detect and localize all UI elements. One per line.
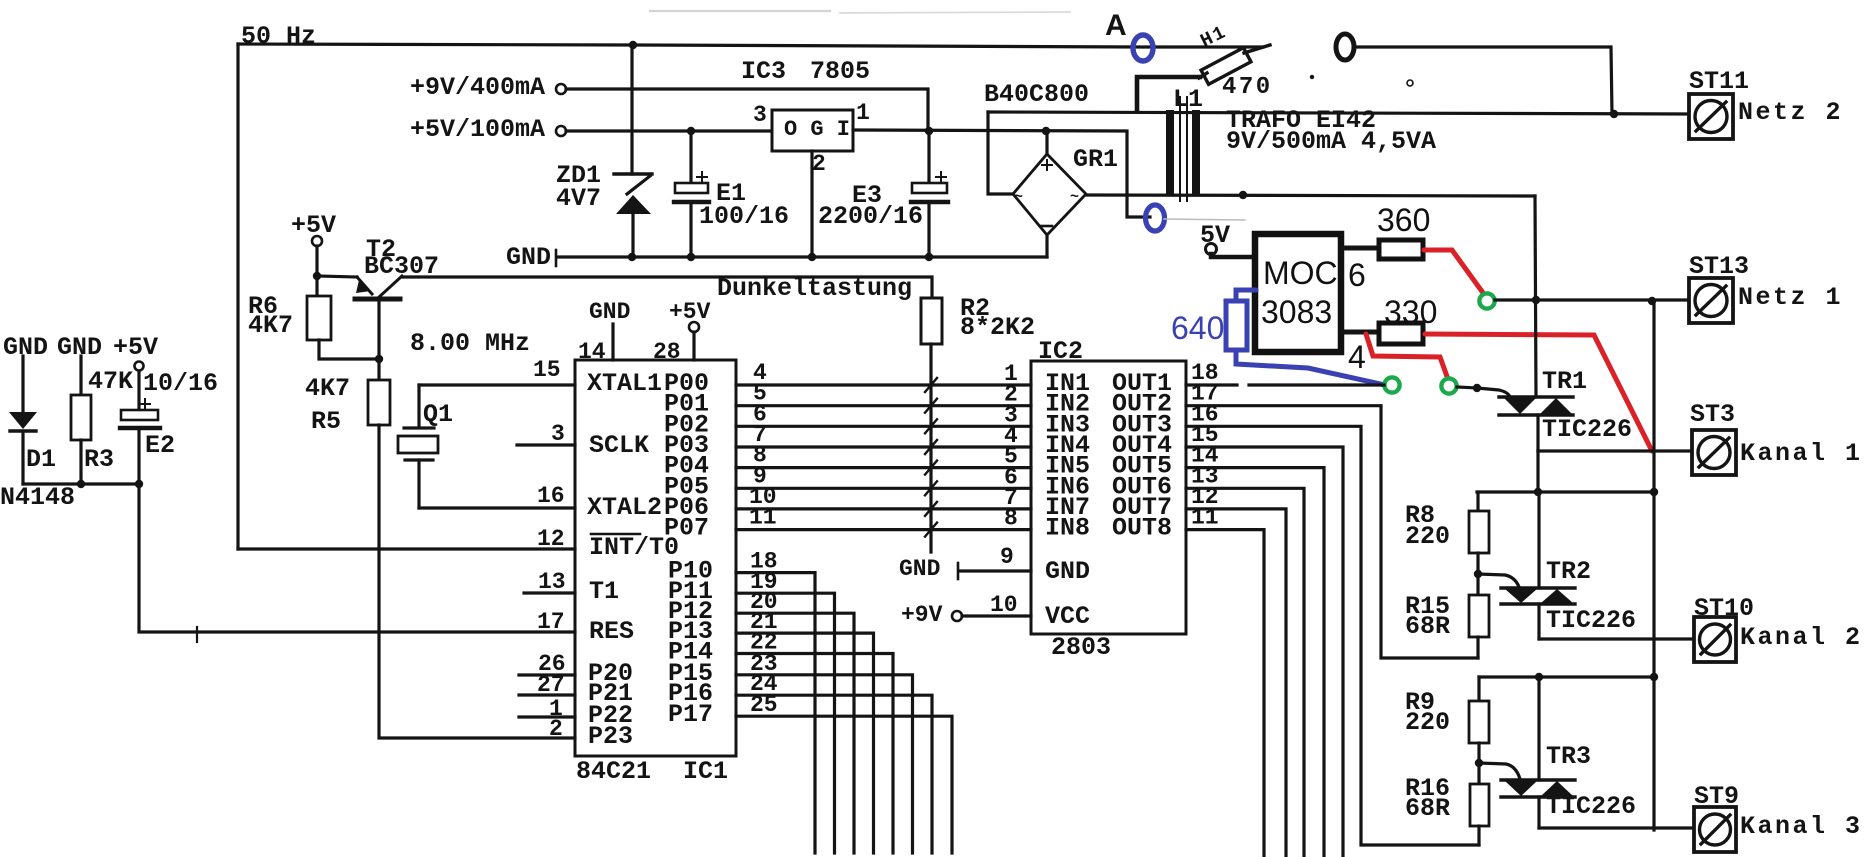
wire OUT2 drop bbox=[1186, 406, 1478, 658]
wire Kanal2 rail bbox=[1539, 637, 1696, 640]
wire GND rail bbox=[558, 255, 1047, 258]
svg-text:+5V: +5V bbox=[291, 211, 336, 240]
wire bridge AC right to transformer bottom bbox=[1086, 195, 1535, 196]
junction dot TR3 MT2 rail bbox=[1535, 673, 1543, 681]
wire P15 staircase bbox=[736, 675, 913, 853]
red wire 330 to Kanal1 node bbox=[1425, 334, 1652, 451]
wire Kanal3 rail bbox=[1539, 826, 1696, 829]
svg-text:Kanal 3: Kanal 3 bbox=[1740, 812, 1863, 841]
svg-text:L1: L1 bbox=[1173, 85, 1203, 114]
junction dot Netz2 drop bbox=[1610, 110, 1618, 118]
svg-text:3083: 3083 bbox=[1261, 294, 1332, 330]
R2 tick on line 8 bbox=[925, 523, 937, 537]
wire bridge AC left loop bbox=[988, 112, 1013, 194]
resistor R15 68R bbox=[1476, 574, 1479, 595]
svg-text:B40C800: B40C800 bbox=[984, 80, 1089, 109]
speck dot bbox=[1310, 75, 1314, 79]
wire P16 staircase bbox=[736, 695, 932, 853]
svg-text:P17: P17 bbox=[668, 700, 713, 729]
svg-text:84C21: 84C21 bbox=[576, 757, 651, 786]
wire TR1 MT1 down to snubber line bbox=[1536, 451, 1539, 492]
svg-text:2200/16: 2200/16 bbox=[818, 202, 923, 231]
svg-text:TR1: TR1 bbox=[1542, 367, 1587, 396]
wire OUT5 drop bbox=[1186, 468, 1324, 857]
wire Netz1 rail bbox=[1495, 298, 1689, 301]
resistor network R2 8*2K2 bbox=[921, 298, 942, 344]
wire bus P06 to IN7 bbox=[736, 507, 1031, 510]
svg-text:Dunkeltastung: Dunkeltastung bbox=[717, 274, 912, 303]
transformer L1 right winding bbox=[1192, 110, 1200, 196]
wire TR3 MT2 bbox=[1537, 677, 1540, 780]
svg-text:13: 13 bbox=[538, 569, 566, 595]
wire IC1 pin14 bbox=[611, 324, 614, 360]
svg-text:E2: E2 bbox=[145, 431, 175, 460]
black ellipse node marker (Netz2 wire) bbox=[1336, 34, 1354, 60]
junction dot right bus R8 rail bbox=[1650, 488, 1658, 496]
svg-text:VCC: VCC bbox=[1045, 602, 1090, 631]
left border wire (50Hz to INT/T0) bbox=[236, 44, 239, 549]
R2 tick on line 2 bbox=[925, 399, 937, 413]
wire P22 stub bbox=[519, 715, 575, 718]
resistor R6 4K7 bbox=[307, 296, 331, 340]
svg-text:28: 28 bbox=[653, 339, 681, 365]
terminal circle +9V bbox=[952, 611, 962, 621]
svg-text:OUT8: OUT8 bbox=[1112, 514, 1172, 543]
blue wire 640 bottom to OUT1 node bbox=[1236, 350, 1385, 385]
wire XTAL2 bbox=[419, 506, 575, 509]
svg-text:15: 15 bbox=[533, 357, 561, 383]
svg-text:25: 25 bbox=[750, 692, 778, 718]
connector ST11 bbox=[1689, 94, 1733, 139]
svg-text:+9V: +9V bbox=[901, 602, 943, 628]
svg-text:~: ~ bbox=[1070, 189, 1079, 206]
svg-text:220: 220 bbox=[1405, 708, 1450, 737]
resistor R8 220 bbox=[1476, 492, 1479, 511]
junction dot E1/+5V rail bbox=[687, 127, 695, 135]
svg-text:2803: 2803 bbox=[1051, 633, 1111, 662]
svg-text:O G I: O G I bbox=[784, 117, 850, 142]
wire TR1 MT1 to Kanal1 bbox=[1536, 415, 1539, 451]
wire P21 stub bbox=[519, 693, 575, 696]
bridge rectifier GR1 diamond bbox=[1013, 154, 1086, 235]
junction dot bridge + lead bbox=[1042, 127, 1050, 135]
svg-text:P23: P23 bbox=[588, 722, 633, 751]
wire IC3 pin1 to bridge + node bbox=[853, 130, 1150, 217]
svg-text:A: A bbox=[1105, 9, 1127, 42]
wire R9 top rail bbox=[1479, 675, 1654, 678]
terminal circle +5V T2 bbox=[312, 236, 322, 246]
svg-text:68R: 68R bbox=[1405, 612, 1450, 641]
wire gate TR2 bbox=[1478, 574, 1519, 587]
transformer L1 core lines bbox=[1180, 97, 1187, 201]
wire bus P02 to IN3 bbox=[736, 425, 1031, 428]
blue wire 640 top to MOC bbox=[1236, 290, 1256, 301]
svg-text:8*2K2: 8*2K2 bbox=[960, 313, 1035, 342]
svg-text:68R: 68R bbox=[1405, 794, 1450, 823]
junction dot ZD1/GND bbox=[628, 253, 636, 261]
resistor 640 (blue annotation) bbox=[1226, 301, 1247, 350]
svg-text:2: 2 bbox=[549, 716, 563, 742]
svg-text:16: 16 bbox=[537, 483, 565, 509]
bridge + mark bbox=[1042, 160, 1052, 170]
bridge - mark bbox=[1040, 225, 1052, 228]
connector ST10 bbox=[1694, 617, 1736, 662]
node marker blue ellipse (transformer secondary) bbox=[1146, 205, 1165, 231]
wire bus P00 to IN1 bbox=[736, 383, 1031, 386]
junction dot R9/R16/gate bbox=[1475, 759, 1483, 767]
resistor R16 68R bbox=[1477, 763, 1480, 784]
svg-text:D1: D1 bbox=[26, 445, 56, 474]
ic IC1 84C21 box bbox=[575, 360, 736, 756]
wire P12 staircase bbox=[736, 613, 854, 853]
resistor R3 47K bbox=[79, 356, 82, 395]
connector ST13 bbox=[1689, 278, 1733, 323]
svg-text:ST9: ST9 bbox=[1694, 782, 1739, 811]
wire OUT8 drop bbox=[1186, 530, 1264, 857]
svg-text:17: 17 bbox=[537, 609, 565, 635]
junction dot R6/R5/base bbox=[375, 355, 383, 363]
svg-text:GND: GND bbox=[899, 556, 940, 582]
svg-text:Netz 1: Netz 1 bbox=[1738, 283, 1843, 312]
node A blue ellipse on 50Hz rail bbox=[1133, 35, 1153, 61]
wire +9V to IC2 pin10 bbox=[962, 614, 1031, 617]
wire P11 staircase bbox=[736, 593, 835, 853]
R2 tick on line 5 bbox=[925, 461, 937, 475]
wire TR2 MT2 bbox=[1537, 492, 1540, 588]
wire bus P01 to IN2 bbox=[736, 404, 1031, 407]
wire OUT7 drop bbox=[1186, 509, 1286, 857]
junction dot E3/GND bbox=[925, 253, 933, 261]
wire H1 bottom lead to transformer node bbox=[1137, 77, 1200, 111]
diode D1 1N4148 bbox=[21, 356, 24, 412]
svg-text:GND: GND bbox=[3, 333, 48, 362]
junction dot R3 bbox=[77, 480, 85, 488]
faint wire stub right of blue ellipse bbox=[1164, 219, 1245, 220]
tick on RES wire bbox=[196, 627, 198, 642]
wire R8 top rail bbox=[1477, 490, 1654, 493]
wire IC1 pin28 bbox=[692, 332, 695, 360]
svg-text:100/16: 100/16 bbox=[699, 202, 789, 231]
resistor R5 4K7 bbox=[377, 359, 380, 380]
svg-text:GND: GND bbox=[589, 299, 630, 325]
terminal circle +9V/400mA bbox=[556, 84, 566, 94]
svg-text:1: 1 bbox=[856, 100, 870, 126]
wire +9V rail to regulator input node bbox=[566, 89, 928, 131]
crystal Q1 bbox=[417, 385, 420, 427]
R2 tick on line 6 bbox=[925, 481, 937, 495]
junction dot R8/R15/gate bbox=[1474, 570, 1482, 578]
R2 tick on line 4 bbox=[925, 440, 937, 454]
resistor R9 220 bbox=[1477, 677, 1480, 701]
wire bridge - to GND rail bbox=[1045, 235, 1048, 257]
svg-text:RES: RES bbox=[589, 617, 634, 646]
svg-text:TR2: TR2 bbox=[1546, 557, 1591, 586]
junction dot E3 / +9V node bbox=[925, 127, 933, 135]
wire T1 stub bbox=[524, 591, 575, 594]
wire bus P07 to IN8 bbox=[736, 528, 1031, 531]
op IC3 7805 regulator box OGI bbox=[772, 110, 853, 151]
wire P14 staircase bbox=[736, 654, 893, 854]
junction dot top rail / ZD1 branch bbox=[629, 41, 637, 49]
wire R5 to P23 bbox=[379, 425, 575, 738]
svg-text:360: 360 bbox=[1377, 202, 1430, 238]
junction dot E2 bbox=[135, 480, 143, 488]
svg-text:4: 4 bbox=[1348, 339, 1366, 375]
red wire 360 to Netz1 node bbox=[1424, 250, 1486, 297]
wire gate TR1 from green node bbox=[1457, 387, 1477, 388]
speck circle bbox=[1407, 80, 1413, 86]
svg-text:11: 11 bbox=[1191, 505, 1219, 531]
wire OUT1 line (cut) bbox=[1186, 383, 1384, 386]
ic IC2 ULN2803 box bbox=[1031, 361, 1186, 634]
svg-text:TIC226: TIC226 bbox=[1542, 415, 1632, 444]
svg-text:GND: GND bbox=[506, 243, 551, 272]
svg-text:14: 14 bbox=[578, 339, 606, 365]
junction dot IC3 pin2/GND bbox=[808, 253, 816, 261]
wire P13 staircase bbox=[736, 633, 874, 853]
svg-text:8.00 MHz: 8.00 MHz bbox=[410, 329, 530, 358]
connector ST9 bbox=[1694, 807, 1736, 852]
green circle node (OUT1 cut left) bbox=[1384, 377, 1399, 392]
svg-text:9V/500mA 4,5VA: 9V/500mA 4,5VA bbox=[1226, 127, 1436, 156]
svg-text:3: 3 bbox=[551, 421, 565, 447]
red wire MOC pin4 to gate node bbox=[1366, 334, 1449, 382]
junction dot Netz1/transformer bbox=[1532, 296, 1540, 304]
junction dot TR1/TR2 column bbox=[1534, 488, 1542, 496]
svg-text:ST13: ST13 bbox=[1689, 252, 1749, 281]
svg-text:MOC: MOC bbox=[1263, 255, 1338, 291]
transistor T2 BC307 bbox=[317, 276, 357, 277]
wire XTAL1 bbox=[419, 383, 575, 386]
svg-text:TIC226: TIC226 bbox=[1546, 606, 1636, 635]
svg-text:Q1: Q1 bbox=[423, 400, 453, 429]
svg-text:ST3: ST3 bbox=[1690, 400, 1735, 429]
wire T2 collector / Dunkeltastung line bbox=[402, 277, 932, 298]
resistor 330 bbox=[1379, 323, 1423, 344]
svg-text:+5V/100mA: +5V/100mA bbox=[410, 115, 545, 144]
junction dot right bus R9 rail bbox=[1650, 673, 1658, 681]
svg-text:470: 470 bbox=[1222, 74, 1273, 101]
svg-text:4V7: 4V7 bbox=[556, 184, 601, 213]
svg-text:4K7: 4K7 bbox=[248, 311, 293, 340]
triac TR3 TIC226 bbox=[1501, 778, 1575, 781]
wire bus P03 to IN4 bbox=[736, 445, 1031, 448]
R2 tick on line 1 bbox=[925, 378, 937, 392]
wire H1 top lead bbox=[1244, 45, 1270, 53]
svg-text:7805: 7805 bbox=[810, 57, 870, 86]
wire MOC pin4 stub bbox=[1341, 330, 1379, 335]
connector ST3 bbox=[1692, 430, 1736, 475]
svg-text:ST10: ST10 bbox=[1694, 594, 1754, 623]
wire bridge + vertical bbox=[1045, 131, 1048, 154]
svg-text:IN8: IN8 bbox=[1045, 514, 1090, 543]
wire right bus vertical bbox=[1652, 301, 1655, 830]
capacitor E2 10/16 bbox=[135, 362, 144, 371]
green circle node (OUT1 cut right) bbox=[1441, 378, 1456, 393]
svg-text:XTAL2: XTAL2 bbox=[587, 493, 662, 522]
wire sensor node to RES pin bbox=[139, 430, 575, 632]
wire SCLK stub bbox=[517, 443, 575, 446]
wire IC3 pin2 to GND rail bbox=[810, 151, 813, 257]
GND tick bar bbox=[555, 250, 558, 266]
junction dot T2 emitter bbox=[313, 272, 321, 280]
wire TR3 MT1 to Kanal3 bbox=[1537, 797, 1540, 828]
svg-text:27: 27 bbox=[537, 672, 565, 698]
svg-text:ST11: ST11 bbox=[1689, 67, 1749, 96]
terminal circle +5V/100mA bbox=[556, 126, 566, 136]
svg-text:220: 220 bbox=[1405, 522, 1450, 551]
junction dot Netz1/right bus bbox=[1648, 297, 1656, 305]
terminal circle 5V bbox=[1206, 244, 1217, 255]
svg-text:47K: 47K bbox=[88, 367, 133, 396]
wire ZD1 to GND rail bbox=[631, 213, 634, 257]
svg-text:Kanal 2: Kanal 2 bbox=[1740, 623, 1863, 652]
junction dot E1/GND bbox=[687, 253, 695, 261]
wire T2 base down bbox=[377, 301, 380, 359]
wire 5V to MOC pin bbox=[1211, 254, 1256, 257]
wire transformer bottom to TR1 MT2 bbox=[1535, 196, 1536, 397]
wire OUT6 drop bbox=[1186, 488, 1304, 857]
wire sensor junction rail bbox=[23, 482, 139, 485]
junction dot transformer winding bottom bbox=[1239, 191, 1247, 199]
op MOC3083 optotriac U-box bbox=[1255, 234, 1341, 352]
svg-text:P07: P07 bbox=[664, 514, 709, 543]
svg-text:9: 9 bbox=[1000, 544, 1014, 570]
wire OUT3 drop bbox=[1186, 426, 1479, 845]
svg-text:11: 11 bbox=[749, 505, 777, 531]
wire P10 staircase bbox=[736, 573, 815, 853]
faint scan smudge top bbox=[650, 10, 830, 12]
capacitor E1 100/16 bbox=[689, 131, 692, 183]
zener diode ZD1 4V7 bbox=[614, 172, 652, 175]
svg-text:3: 3 bbox=[753, 102, 767, 128]
svg-text:2: 2 bbox=[812, 151, 826, 177]
triac TR1 TIC226 bbox=[1499, 395, 1573, 398]
wire +5V rail to IC3 pin3 bbox=[566, 129, 772, 132]
svg-text:330: 330 bbox=[1384, 294, 1437, 330]
wire P20 stub bbox=[519, 673, 575, 676]
svg-text:640: 640 bbox=[1171, 310, 1224, 346]
triac TR2 TIC226 bbox=[1501, 586, 1575, 589]
svg-text:IC1: IC1 bbox=[683, 757, 728, 786]
wire GND to IC2 pin9 bbox=[960, 569, 1031, 572]
wire bridge top / Netz2 rail bbox=[988, 112, 1689, 114]
svg-text:+5V: +5V bbox=[113, 333, 158, 362]
wire +5V to R6/T2 bbox=[315, 246, 318, 296]
svg-text:R3: R3 bbox=[84, 445, 114, 474]
svg-text:IC3: IC3 bbox=[741, 57, 786, 86]
svg-text:N4148: N4148 bbox=[0, 483, 75, 512]
transformer L1 left winding bbox=[1166, 110, 1174, 196]
resistor 360 bbox=[1379, 240, 1423, 259]
svg-text:GR1: GR1 bbox=[1073, 145, 1118, 174]
R2 tick on line 3 bbox=[925, 419, 937, 433]
svg-text:6: 6 bbox=[1348, 257, 1366, 293]
R2 tick on line 7 bbox=[925, 502, 937, 516]
svg-text:+9V/400mA: +9V/400mA bbox=[410, 73, 545, 102]
green circle node (Netz1 cut) bbox=[1479, 293, 1494, 308]
svg-text:~: ~ bbox=[1014, 189, 1023, 206]
wire ZD1 branch top bbox=[630, 45, 633, 174]
wire P17 staircase bbox=[736, 716, 952, 853]
svg-text:IC2: IC2 bbox=[1038, 337, 1083, 366]
resistor H1 470 tilted bbox=[1201, 48, 1251, 85]
svg-text:T1: T1 bbox=[589, 577, 619, 606]
svg-text:TIC226: TIC226 bbox=[1546, 792, 1636, 821]
terminal circle +5V IC1 bbox=[689, 322, 699, 332]
wire INT/T0 from border bbox=[238, 547, 575, 550]
wire TR2 MT1 to Kanal2 bbox=[1537, 604, 1540, 639]
svg-text:Netz 2: Netz 2 bbox=[1738, 98, 1843, 127]
wire OUT4 drop bbox=[1186, 447, 1343, 857]
wire black ellipse to Netz2 rail bbox=[1356, 47, 1612, 114]
svg-text:4K7: 4K7 bbox=[305, 374, 350, 403]
svg-text:SCLK: SCLK bbox=[589, 431, 649, 460]
svg-text:XTAL1: XTAL1 bbox=[587, 369, 662, 398]
wire bus P05 to IN6 bbox=[736, 487, 1031, 490]
svg-text:GND: GND bbox=[1045, 557, 1090, 586]
svg-text:+5V: +5V bbox=[669, 299, 711, 325]
capacitor E3 2200/16 bbox=[927, 131, 930, 183]
svg-text:12: 12 bbox=[537, 526, 565, 552]
svg-text:TR3: TR3 bbox=[1546, 742, 1591, 771]
wire MOC pin6 to 360 bbox=[1341, 246, 1379, 251]
wire gate TR3 bbox=[1479, 763, 1520, 779]
50Hz top rail wire bbox=[238, 44, 1263, 47]
svg-text:R5: R5 bbox=[311, 407, 341, 436]
wire Kanal1 rail bbox=[1538, 449, 1694, 452]
overline INT bbox=[591, 533, 640, 536]
svg-text:Kanal 1: Kanal 1 bbox=[1740, 439, 1863, 468]
svg-text:10/16: 10/16 bbox=[143, 369, 218, 398]
svg-text:10: 10 bbox=[990, 592, 1018, 618]
svg-text:8: 8 bbox=[1004, 506, 1018, 532]
svg-text:50 Hz: 50 Hz bbox=[241, 22, 316, 51]
wire bus P04 to IN5 bbox=[736, 466, 1031, 469]
